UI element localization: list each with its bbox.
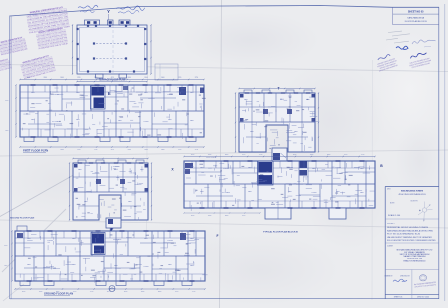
svg-text:KIT: KIT [91,213,94,215]
svg-text:KITCHEN: KITCHEN [222,192,230,194]
plan C2 stair core left [259,162,273,173]
row3 interior detail [65,246,67,252]
terrace parapet box right [119,20,130,25]
svg-text:FULL DESCRIPTION FILTER CONSIG: FULL DESCRIPTION FILTER CONSIGNER LIMITE… [387,240,436,242]
tb round stamp [419,275,426,281]
plan C1 stem [106,218,121,228]
svg-text:LIVING: LIVING [223,168,229,170]
svg-text:KIT: KIT [135,213,138,215]
row3 dimension left [11,231,13,281]
svg-text:2750: 2750 [361,154,365,156]
svg-text:TYPICAL FLOOR PLAN BLOCK B: TYPICAL FLOOR PLAN BLOCK B [263,231,298,234]
approval stamp group left [375,52,400,72]
plan C2 internal walls [195,161,197,184]
svg-text:2750: 2750 [90,291,94,293]
plan B outline [239,93,315,152]
svg-text:Y: Y [107,9,110,14]
row3 stair core [92,234,104,244]
terrace parapet box left [85,20,100,25]
plan A first floor strip outline [20,85,204,137]
diagonal crease b [2,209,66,272]
svg-text:3050: 3050 [128,149,132,151]
rubber stamp S5 fragment [0,58,12,74]
svg-text:E: E [108,91,111,96]
svg-text:3050: 3050 [191,154,195,156]
plan C2 bottom dimension row [184,212,260,214]
svg-text:3050: 3050 [27,77,31,79]
svg-text:PROJECT: PROJECT [387,223,395,225]
svg-text:SECOND FLOOR PLAN: SECOND FLOOR PLAN [10,217,35,220]
rubber stamp S4 [20,54,57,81]
row3 window ticks [27,230,32,232]
svg-text:2750: 2750 [192,291,196,293]
svg-text:3050: 3050 [5,100,9,102]
svg-text:2750: 2750 [94,77,98,79]
svg-text:EMAIL KTOWERS@BUILD: EMAIL KTOWERS@BUILD [404,259,427,262]
plan B window ticks [245,92,249,94]
svg-text:2440: 2440 [310,154,314,156]
svg-text:DRG NO 1205: DRG NO 1205 [417,297,429,299]
svg-text:2440: 2440 [141,291,145,293]
svg-text:3050: 3050 [22,291,26,293]
plan C2 dimension top [184,156,375,158]
svg-text:2440: 2440 [44,77,48,79]
light cursive signature [412,40,436,44]
svg-text:CLIENT: CLIENT [387,246,393,248]
svg-text:2750: 2750 [94,149,98,151]
plan C1 internal walls [73,176,148,178]
svg-text:HALL: HALL [280,98,284,101]
svg-text:1220: 1220 [178,77,182,79]
svg-text:3050: 3050 [293,154,297,156]
svg-text:1220: 1220 [77,77,81,79]
rubber stamp S1 [26,5,71,34]
plan C1 corner cores [74,164,78,168]
svg-text:3660: 3660 [225,154,229,156]
svg-text:1220: 1220 [73,291,77,293]
svg-text:1220: 1220 [242,215,246,217]
plan B internal walls [239,106,315,108]
fold crease horizontal upper [0,65,448,72]
svg-text:3660: 3660 [225,215,229,217]
svg-text:LIVING: LIVING [47,240,53,242]
row3 parapet above [17,226,27,231]
row3 closet strips [15,237,91,239]
plan C2 corner darks [185,163,193,168]
fold crease vertical left-mid [147,58,148,232]
svg-text:TOILET: TOILET [143,266,149,268]
terrace plan handwritten note 1 [78,5,98,9]
diagonal crease a [0,173,78,217]
plan C2 closet strips [184,167,258,169]
svg-text:2750: 2750 [195,149,199,151]
svg-text:1220: 1220 [77,149,81,151]
terrace plan outline [77,25,147,74]
svg-text:2440: 2440 [144,77,148,79]
terrace parapet box mid [108,20,114,25]
svg-text:2440: 2440 [208,215,212,217]
svg-text:KIT: KIT [301,143,304,145]
svg-text:KIT: KIT [257,143,260,145]
plan A dark closets [179,87,186,95]
plan C1 top protrusions [78,160,86,163]
plan A stair core [92,87,105,96]
svg-text:RESIDENTIAL GROUP HOUSING TOWE: RESIDENTIAL GROUP HOUSING TOWERS [387,226,429,229]
svg-text:12.19 x 10.36: 12.19 x 10.36 [206,157,216,159]
svg-text:3050: 3050 [128,77,132,79]
plan B stem and stair hatch [272,148,287,161]
plan C1 window ticks [78,162,82,164]
approval stamp group right [407,51,432,70]
svg-text:3660: 3660 [161,77,165,79]
svg-text:TOILET: TOILET [311,192,317,194]
fold crease horizontal middle [0,150,448,156]
plan C1 dimensions [69,163,71,220]
fold crease vertical right [371,60,374,300]
plan B top protrusions [244,90,252,93]
row3 dimension bottom [15,288,205,290]
plan C2 wing B [329,208,346,219]
plan A internal walls [27,85,29,111]
svg-text:2750: 2750 [195,77,199,79]
row3 outline [15,231,205,281]
plan A dimension left [15,85,17,137]
plan C1 interior detail [143,208,146,210]
svg-text:GROUND FLOOR PLAN: GROUND FLOOR PLAN [44,292,73,296]
svg-text:2440: 2440 [4,265,8,267]
svg-text:2440: 2440 [208,154,212,156]
plan A dimension top [20,79,204,81]
svg-text:HALL: HALL [114,168,118,171]
svg-text:3660: 3660 [161,149,165,151]
svg-text:4TH & 5TH FLOOR PLAN BLOCK B: 4TH & 5TH FLOOR PLAN BLOCK B [399,193,426,196]
plan C2 window ticks [200,160,205,162]
diagonal crease c [3,284,24,301]
svg-text:SHEET NO 05: SHEET NO 05 [408,11,424,14]
sheet border bottom [10,297,439,299]
title block bottom-right frame [385,186,439,188]
svg-text:SCALE 1:100: SCALE 1:100 [388,214,401,217]
svg-text:F: F [217,234,219,238]
blue scribble initial [396,46,408,49]
tb architect stamp lines [414,281,437,289]
title block top-right frame [392,7,394,24]
rubber stamp S3 [0,36,28,57]
svg-text:3660: 3660 [158,291,162,293]
svg-text:FIRST FLOOR PLAN: FIRST FLOOR PLAN [23,149,48,153]
plan B interior detail [298,126,304,128]
svg-text:2440: 2440 [39,291,43,293]
plan C2 stair core right [300,161,308,168]
svg-text:KANCHANJUNGA AT MAUZA BELA DEV: KANCHANJUNGA AT MAUZA BELA DEVELOPED [387,229,434,232]
svg-text:LIVING: LIVING [167,240,173,242]
row3 dark closets [180,233,186,240]
svg-text:1220: 1220 [178,149,182,151]
svg-text:PLOT NO 34-35 KHASRA NO 81-82: PLOT NO 34-35 KHASRA NO 81-82 [387,233,421,236]
water tank dashed outline [155,64,178,80]
plan C1 outline [73,163,148,220]
terrace bottom tabs [96,74,104,78]
row3 internal walls [23,231,25,256]
compass rose [418,202,433,222]
plan A closet strips [20,91,91,93]
svg-text:3660: 3660 [60,77,64,79]
svg-text:1220: 1220 [175,291,179,293]
svg-text:TOILET: TOILET [143,121,149,123]
svg-text:DINING: DINING [117,93,124,95]
terrace plan handwritten note 2 [116,6,145,11]
tb signature [393,279,407,282]
plan A balconies [24,137,34,142]
terrace columns [87,25,89,27]
plan C2 outline [184,161,375,208]
svg-text:3050: 3050 [124,291,128,293]
svg-text:2440: 2440 [144,149,148,151]
svg-text:KANCHANJUNGA: KANCHANJUNGA [407,17,424,20]
svg-text:3660: 3660 [327,154,331,156]
plan A dimension bottom [20,146,204,148]
svg-text:CHECKED BY: CHECKED BY [400,276,410,278]
svg-text:3660: 3660 [60,149,64,151]
svg-text:KANCHANJUNGA TOWERS: KANCHANJUNGA TOWERS [401,189,423,192]
wrinkle shading [180,12,320,68]
row3 section marker [109,286,115,292]
pencil notes under title [388,31,402,32]
sheet border right [438,7,440,299]
row3 balconies [20,281,30,286]
svg-text:4270: 4270 [276,154,280,156]
plan B corner cores [240,94,244,98]
rubber stamp S2 [36,27,69,51]
plan B dimensions [235,93,237,152]
svg-text:NOTE: NOTE [390,202,394,204]
svg-text:2750: 2750 [259,154,263,156]
row3 middle wall [15,255,205,257]
sheet border top [10,6,439,17]
svg-text:1220: 1220 [242,154,246,156]
plan C2 wing A [265,208,291,219]
svg-text:4270: 4270 [111,77,115,79]
svg-text:FLOOR PLAN BLOCK B: FLOOR PLAN BLOCK B [405,20,428,23]
terrace dimension lines [72,25,74,74]
svg-text:KITCHEN: KITCHEN [52,121,60,123]
svg-text:4270: 4270 [111,149,115,151]
svg-text:SHEET 05: SHEET 05 [394,297,402,299]
svg-text:3050: 3050 [191,215,195,217]
svg-text:4270: 4270 [107,291,111,293]
plan C2 middle wall [184,183,375,185]
fold crease horizontal lower [0,220,448,228]
terrace dashed ridge lines [96,43,125,45]
plan A middle wall [20,110,204,112]
svg-text:2440: 2440 [5,130,9,132]
svg-text:1220: 1220 [344,154,348,156]
svg-text:VALUED/SURVY PANNING SECTOR GR: VALUED/SURVY PANNING SECTOR GREATER [387,236,432,239]
svg-text:3050: 3050 [4,245,8,247]
plan A interior detail [129,100,135,102]
sheet border left [9,16,11,300]
fold crease vertical center [220,0,222,308]
svg-text:NORTH: NORTH [411,200,418,202]
plan C2 interior detail [213,168,215,170]
plan A window ticks [31,84,36,86]
